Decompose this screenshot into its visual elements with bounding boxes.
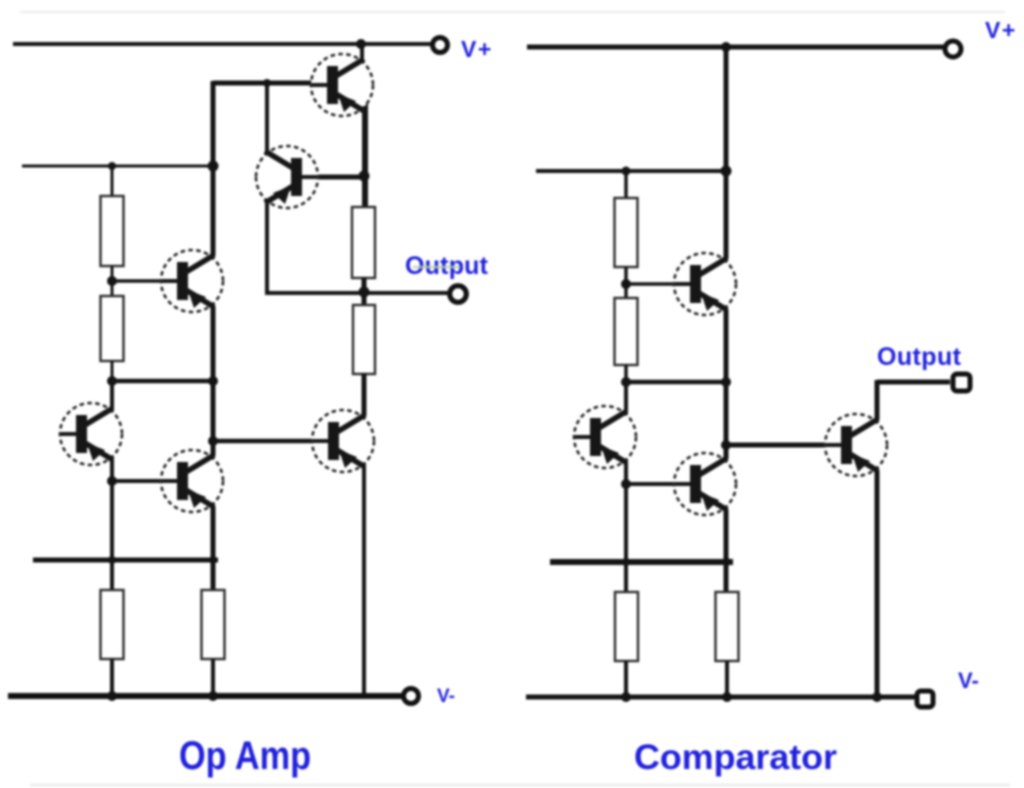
transistor Q4 [60, 403, 122, 465]
wire output horizontal [877, 380, 950, 385]
svg-text:V+: V+ [985, 17, 1017, 43]
transistor Q3c [674, 453, 736, 515]
wire R2c to bus382 [624, 365, 628, 384]
resistor R6c [716, 592, 739, 661]
wire Q3 base [112, 279, 180, 283]
svg-text:Comparator: Comparator [634, 738, 837, 777]
resistor R2 [101, 296, 124, 361]
node (267,83) [263, 79, 271, 87]
wire column x=726 middle segment [724, 309, 729, 459]
faint top artifact line [20, 11, 1005, 14]
transistor Q2 (mirrored PNP) [256, 146, 318, 208]
resistor R3 [352, 207, 375, 278]
terminal V+ right [945, 41, 961, 57]
wire Q2 base lead [300, 175, 366, 180]
wire V- rail left [8, 693, 403, 699]
transistor Q6 [312, 410, 374, 472]
wire x=267 upper segment [265, 83, 269, 156]
resistor R5 [101, 590, 124, 659]
wire R5 to V- rail [110, 659, 114, 697]
node (112,281) [107, 276, 117, 286]
wire column x=626 upper segment [624, 382, 628, 412]
resistor R1 [101, 196, 124, 266]
wire Q6 emitter down to V- rail [362, 466, 366, 697]
node (626,382) [621, 377, 631, 387]
wire top bus y=83 to Q1 base [213, 81, 329, 86]
node (213,696) [208, 691, 218, 701]
svg-text:Output: Output [877, 343, 962, 371]
faint bottom artifact line [30, 784, 1010, 787]
wire R2 to bus381 [111, 361, 114, 383]
wire input 1 right y=171 [536, 169, 726, 173]
node (213,441) [208, 436, 218, 446]
wire column x=213 upper segment [211, 81, 216, 256]
wire Q6 base [213, 439, 330, 444]
svg-text:V+: V+ [461, 36, 493, 62]
wire Q3c base [626, 482, 693, 486]
wire column x=213 middle segment [211, 306, 216, 456]
transistor Q4c [825, 414, 887, 476]
node (727,697) [722, 692, 732, 702]
wire Q4c emitter to V- rail [875, 470, 880, 698]
terminal V+ left [433, 38, 448, 53]
transistor Q3 [161, 250, 223, 312]
wire output line [265, 291, 448, 295]
wire link input1 to R1c [624, 171, 628, 199]
wire Q1c base [626, 282, 694, 286]
wire column x=726 lower segment [724, 509, 729, 592]
wire bus y=381 [112, 379, 213, 384]
wire V+ rail right [527, 45, 944, 50]
artifact green line through label [413, 266, 460, 269]
wire column x=726 upper segment [724, 45, 729, 259]
wire column x=112 lower segment [110, 459, 114, 591]
node (112,166) [108, 162, 116, 170]
wire output corner vertical upper [875, 380, 880, 420]
wire R1-R2 link [111, 266, 114, 296]
resistor R4 [353, 305, 375, 374]
wire input 2 left y=560 [33, 558, 218, 563]
node (626,484) [621, 479, 631, 489]
node V+ junction (361,44) [356, 39, 366, 49]
wire V+ rail left [13, 42, 431, 46]
transistor Q5 [161, 450, 223, 512]
node (213,560) [209, 556, 217, 564]
wire Q4c base [726, 443, 843, 448]
node (112,381) [107, 376, 117, 386]
wire R3 to output node [362, 277, 367, 306]
node (626,562) [622, 558, 630, 566]
wire bus y=382 [626, 380, 726, 385]
wire R5c to V- rail [624, 661, 628, 698]
node (626,171) [622, 167, 631, 176]
node (726,445) [721, 440, 731, 450]
node (626,697) [621, 692, 631, 702]
node Q2 base junction (364,176) [359, 171, 370, 182]
wire input 1 left y=166 [22, 165, 213, 168]
terminal Output right [953, 374, 970, 391]
wire column x=213 lower segment [211, 506, 216, 592]
terminal Output left [450, 286, 467, 303]
wire column x=112 upper segment [110, 381, 114, 409]
node (626,284) [621, 279, 631, 289]
wire V- rail right [526, 695, 916, 700]
node (726,47) [721, 42, 731, 52]
node (877,697) [872, 692, 882, 702]
wire column x=626 lower segment [624, 462, 628, 592]
resistor R1c [615, 198, 638, 267]
svg-text:Op Amp: Op Amp [179, 734, 311, 778]
wire R6c to V- rail [725, 661, 729, 698]
svg-text:V-: V- [958, 668, 979, 693]
node (112,481) [107, 476, 117, 486]
wire V+ drop to Q1 [360, 42, 364, 60]
wire output column upper (Q1 emitter to R3) [362, 104, 368, 208]
terminal V- left [404, 689, 419, 704]
node (727,562) [723, 558, 731, 566]
wire R4 down to Q6 collector [362, 373, 367, 416]
node (112,696) [107, 691, 117, 701]
node (213,381) [208, 376, 218, 386]
node (112,560) [108, 556, 116, 564]
svg-text:V-: V- [437, 686, 455, 707]
wire R1c-R2c link [624, 267, 628, 299]
node output junction (364,292) [359, 287, 370, 298]
resistor R6 [202, 590, 225, 659]
terminal V- right [917, 691, 933, 707]
transistor Q1 [311, 54, 373, 116]
wire link input1 to R1 [111, 166, 114, 197]
resistor R5c [615, 592, 638, 661]
node (726,382) [721, 377, 731, 387]
wire R6 to V- rail [211, 659, 215, 697]
wire x=267 lower segment to output corner [265, 198, 269, 293]
transistor Q1c [674, 253, 736, 315]
resistor R2c [615, 298, 638, 365]
node (213,166) [208, 161, 219, 172]
wire input 2 right y=562 [550, 559, 733, 565]
node (726,171) [721, 166, 732, 177]
transistor Q2c [574, 406, 636, 468]
wire Q5 base [112, 479, 180, 483]
